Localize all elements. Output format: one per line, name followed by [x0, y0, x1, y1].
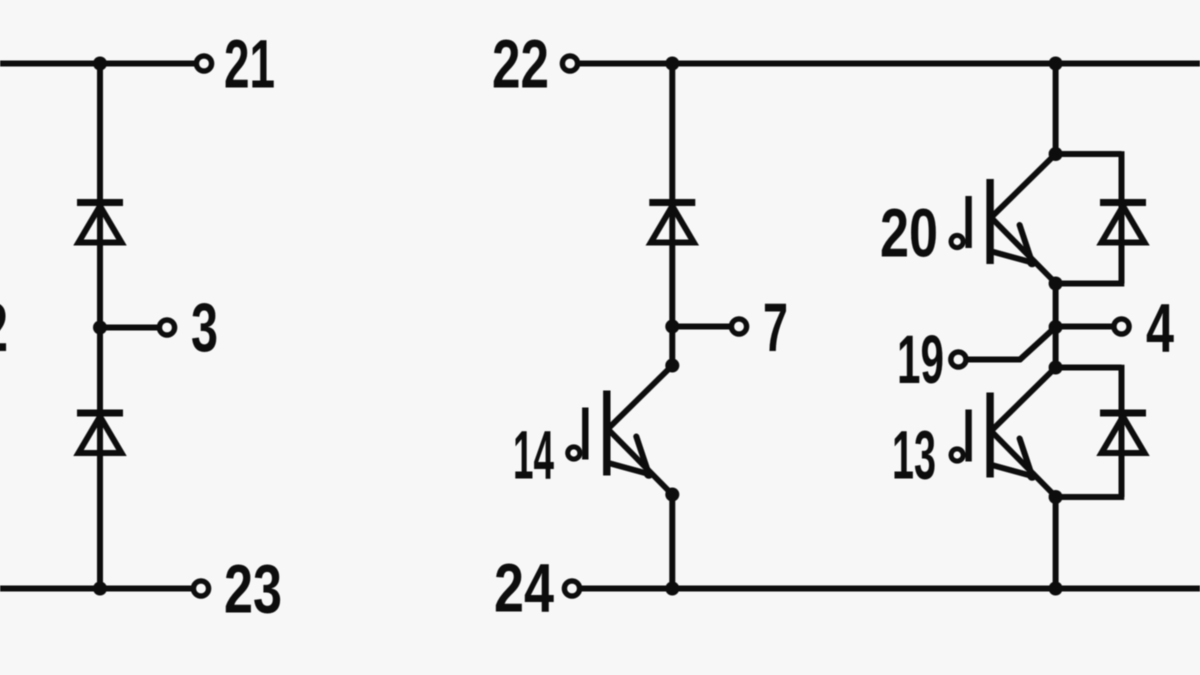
node junction top-left	[93, 57, 107, 71]
wire terminal 19 lead	[967, 357, 1021, 363]
IGBT 14 emitter node dot	[665, 488, 679, 502]
node junction top-middle	[665, 57, 679, 71]
terminal 23 circle	[193, 581, 208, 596]
wire node 4 to IGBT 13 collector	[1053, 327, 1059, 368]
terminal 19 circle	[951, 352, 966, 367]
terminal 4 circle	[1114, 319, 1129, 334]
wire middle column upper	[669, 64, 675, 327]
diode D6 freewheel lower	[1100, 413, 1146, 453]
wire node 7 stub	[672, 324, 730, 330]
transistor IGBT 20	[951, 155, 1055, 282]
diode D1 upper-left	[77, 203, 123, 243]
wire terminal 19 diagonal to node 4	[1020, 328, 1055, 360]
wire IGBT 13 collector to freewheel diode top	[1056, 365, 1122, 371]
node junction top-right	[1049, 57, 1063, 71]
terminal 24 circle	[564, 581, 579, 596]
svg-text:19: 19	[897, 321, 944, 398]
wire bottom rail right (terminal 24 to right edge)	[581, 586, 1200, 592]
svg-text:4: 4	[1146, 290, 1174, 367]
svg-text:23: 23	[224, 551, 282, 628]
svg-text:22: 22	[492, 26, 549, 103]
wire left column lower	[97, 328, 103, 589]
node junction bottom-right	[1049, 582, 1063, 596]
wire bottom rail left (to terminal 23)	[0, 586, 193, 592]
node junction bottom-middle	[665, 582, 679, 596]
wire node 3 stub	[100, 325, 159, 331]
svg-text:13: 13	[892, 417, 936, 494]
wire left column upper	[97, 64, 103, 328]
transistor IGBT 13	[951, 369, 1055, 496]
IGBT 20 collector node dot	[1049, 147, 1063, 161]
wire IGBT 14 emitter to bottom rail	[669, 495, 675, 589]
transistor IGBT 14	[568, 367, 672, 494]
wire node 4 stub	[1056, 324, 1113, 330]
svg-text:14: 14	[513, 417, 554, 494]
node 3 junction	[93, 321, 107, 335]
wire top rail right (terminal 22 to right edge)	[579, 61, 1200, 67]
svg-text:21: 21	[224, 26, 275, 103]
svg-text:3: 3	[191, 289, 218, 366]
terminal 21 circle	[196, 56, 211, 71]
wire freewheel diode bottom to IGBT 20 emitter	[1056, 281, 1125, 287]
wire IGBT 20 emitter to node 4	[1053, 284, 1059, 328]
terminal 22 circle	[562, 56, 577, 71]
wire right column top to IGBT 20 collector	[1053, 64, 1059, 155]
wire freewheel diode bottom to IGBT 13 emitter	[1056, 494, 1125, 500]
IGBT 13 emitter node dot	[1049, 490, 1063, 504]
wire IGBT 20 collector to freewheel diode top	[1056, 151, 1122, 157]
svg-text:7: 7	[763, 289, 788, 366]
node junction bottom-left	[93, 582, 107, 596]
wire IGBT 13 emitter to bottom rail	[1053, 497, 1059, 589]
wire freewheel diode D6 branch vertical	[1119, 365, 1125, 497]
wire node 7 to IGBT 14 collector	[669, 327, 675, 366]
terminal 3 circle	[159, 320, 174, 335]
terminal 7 circle	[731, 319, 746, 334]
svg-text:20: 20	[880, 195, 938, 272]
svg-text:2: 2	[0, 289, 8, 366]
IGBT 14 collector node dot	[665, 359, 679, 373]
diode D3 middle	[649, 203, 695, 243]
svg-text:24: 24	[494, 550, 554, 627]
wire top rail left (to terminal 21)	[0, 61, 196, 67]
IGBT 13 collector node dot	[1049, 361, 1063, 375]
diode D2 lower-left	[77, 413, 123, 453]
diode D5 freewheel upper	[1100, 203, 1146, 243]
node 4 junction	[1049, 320, 1063, 334]
wire freewheel diode D5 branch vertical	[1119, 151, 1125, 283]
node 7 junction	[665, 320, 679, 334]
IGBT 20 emitter node dot	[1049, 277, 1063, 291]
